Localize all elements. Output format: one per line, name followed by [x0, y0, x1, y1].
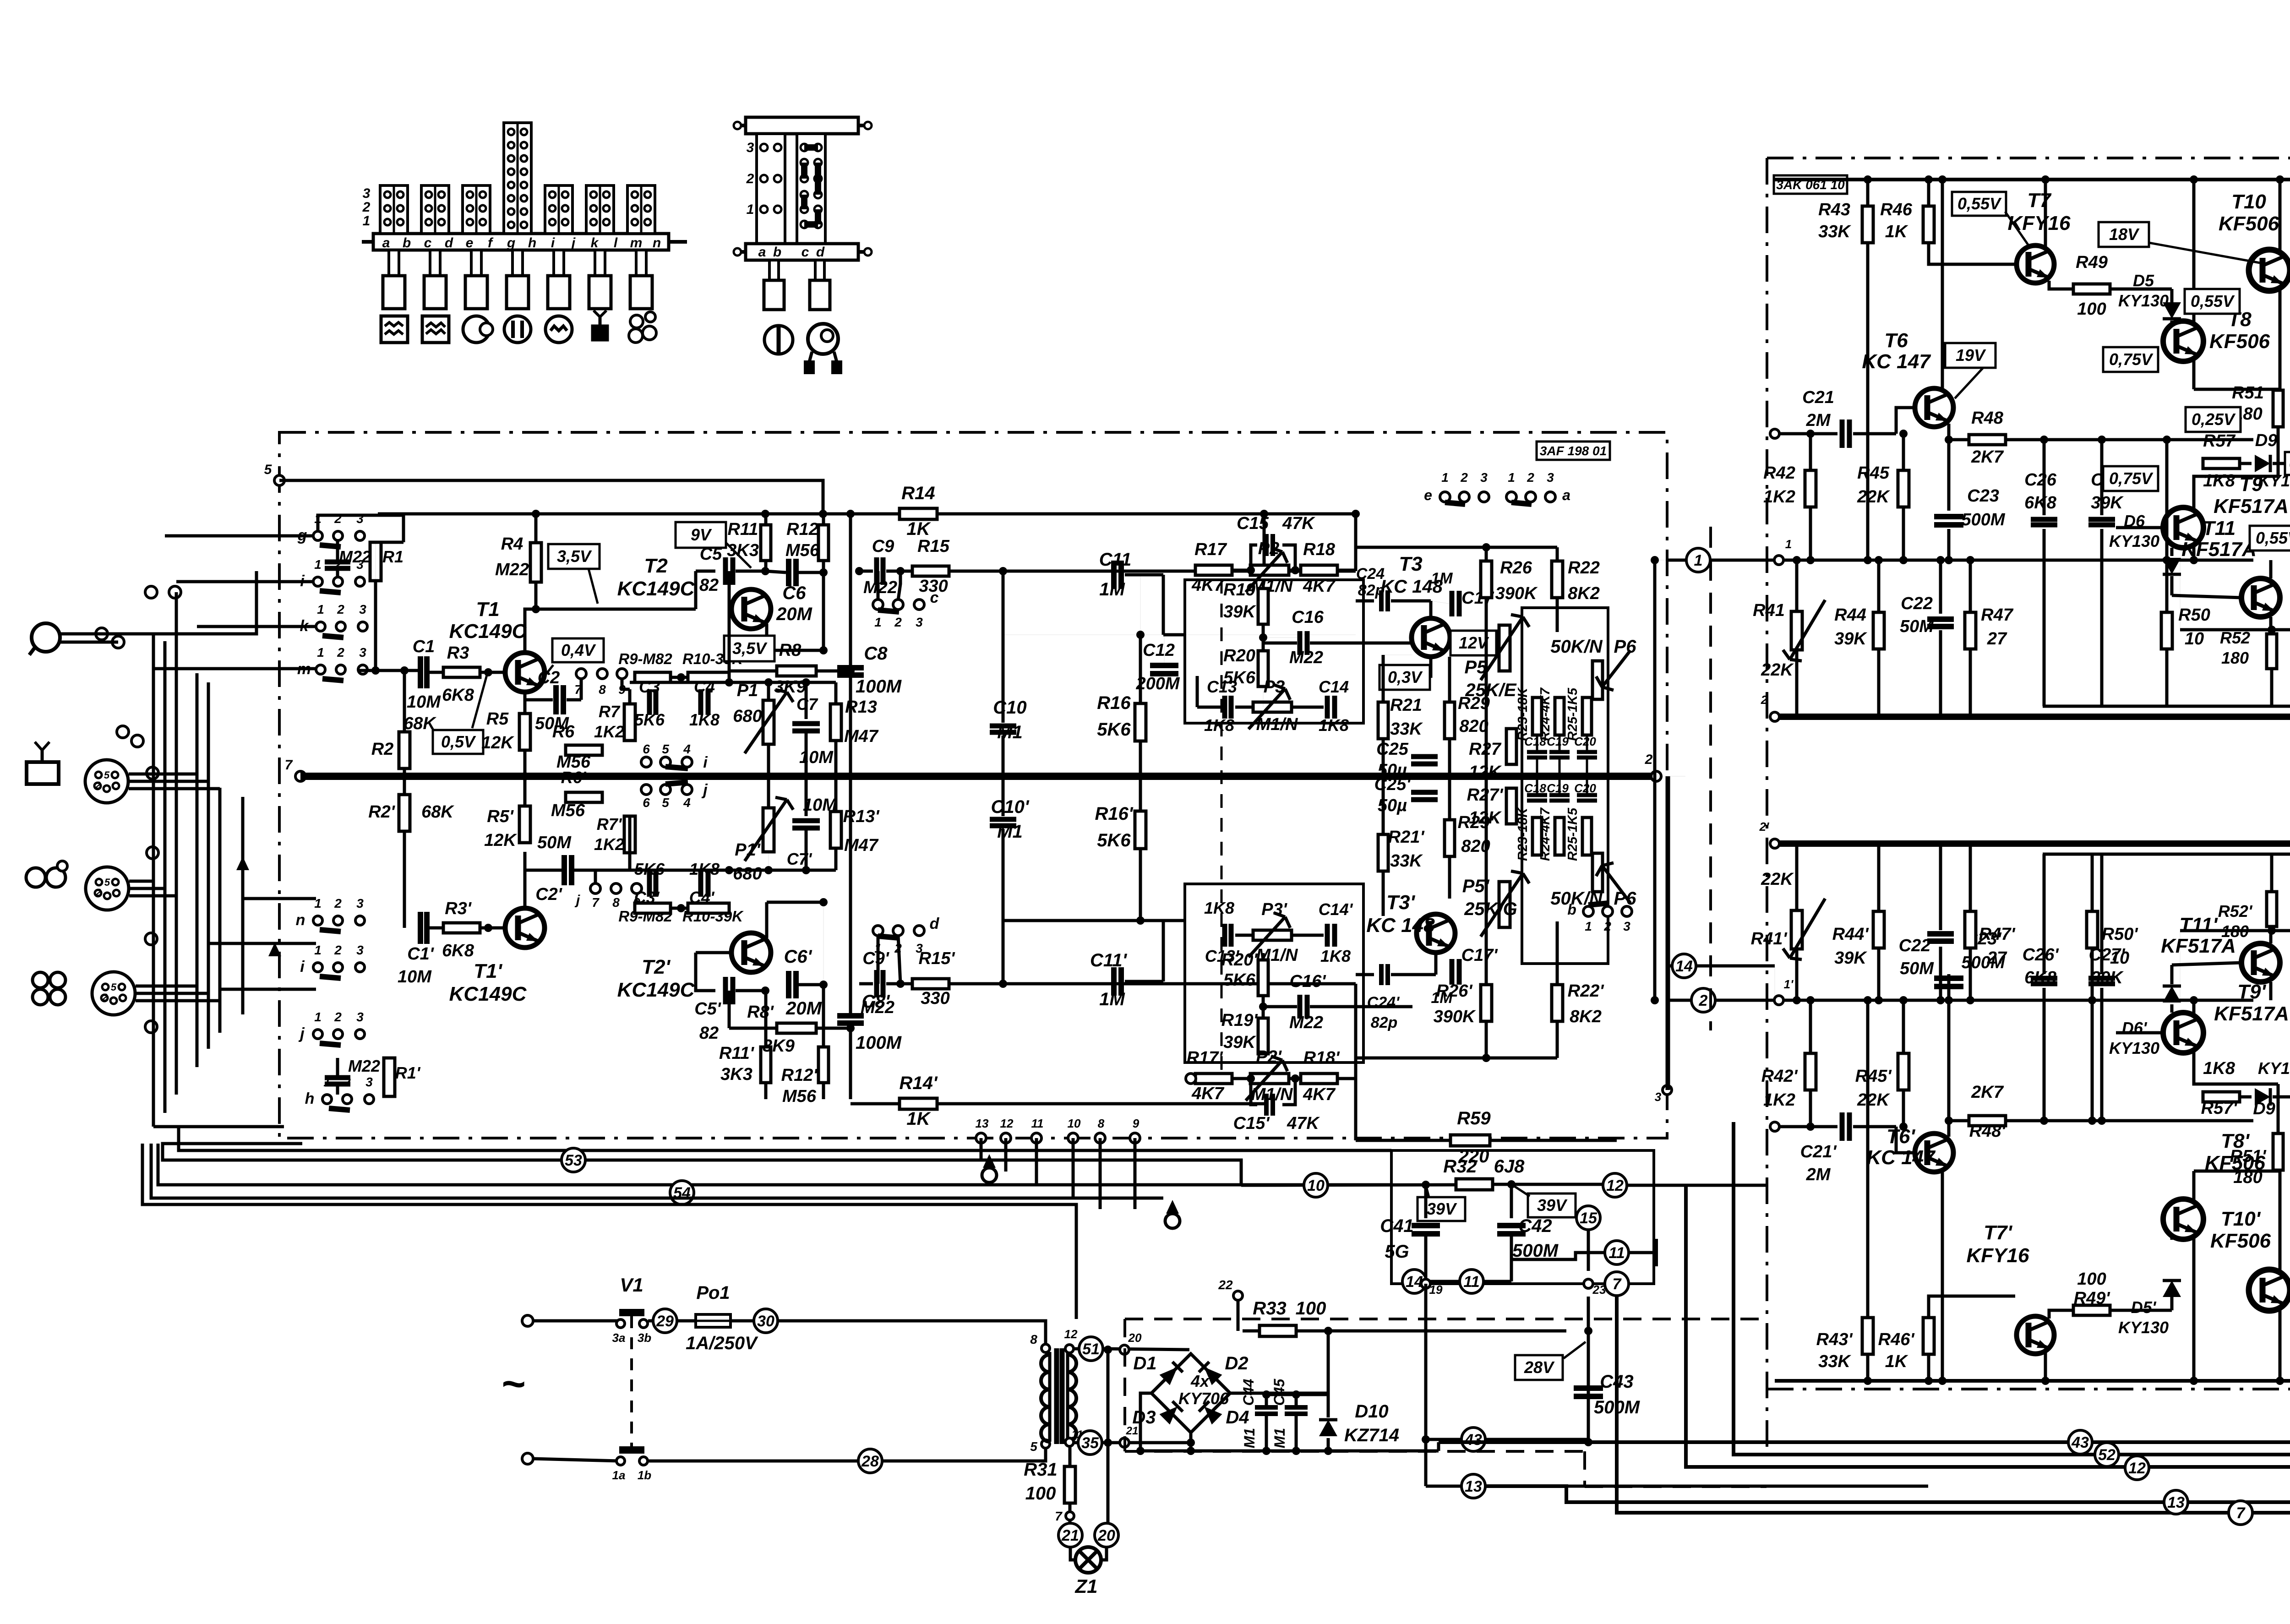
svg-text:1K8: 1K8 [1319, 716, 1349, 735]
svg-text:R12': R12' [781, 1066, 818, 1085]
resistor R11' [761, 1047, 771, 1083]
svg-text:M22: M22 [348, 1057, 380, 1075]
svg-text:C4': C4' [689, 888, 715, 907]
svg-text:3K9: 3K9 [763, 1036, 795, 1056]
svg-text:43: 43 [2071, 1434, 2089, 1451]
svg-text:R7': R7' [597, 815, 622, 834]
capacitor C23 [1947, 440, 1951, 511]
wire 20 vertical [1107, 1350, 1110, 1523]
node 13 power [1424, 1439, 1428, 1486]
svg-text:D9': D9' [2253, 1099, 2280, 1118]
svg-text:C19: C19 [1547, 735, 1569, 748]
svg-text:2: 2 [362, 200, 371, 215]
svg-text:KF517A: KF517A [2214, 495, 2289, 518]
capacitor C21 [1775, 432, 1837, 436]
wire bus 52 bottom [1734, 1122, 2290, 1455]
node 51 power [1079, 1337, 1103, 1361]
svg-text:3AF 198 01: 3AF 198 01 [1540, 444, 1607, 458]
svg-text:7: 7 [1613, 1275, 1622, 1293]
svg-text:V1: V1 [620, 1274, 643, 1296]
resistor R52 [2180, 628, 2290, 632]
svg-text:C23: C23 [1967, 486, 1999, 506]
svg-text:n: n [296, 911, 305, 929]
transistor T9 [2163, 507, 2203, 548]
svg-text:2: 2 [334, 943, 342, 957]
svg-text:C22: C22 [1901, 594, 1933, 613]
svg-text:R2: R2 [371, 740, 394, 759]
filter box [1391, 1150, 1654, 1284]
switch contact k [316, 622, 325, 631]
svg-text:5K6: 5K6 [634, 710, 665, 729]
svg-text:47K: 47K [1282, 514, 1315, 533]
lower mid wire [1162, 921, 1165, 981]
resistor R42' [1810, 1090, 1811, 1127]
svg-text:1K8: 1K8 [1320, 947, 1351, 965]
symbol rec/play head (wave box) c [422, 316, 449, 343]
svg-text:2: 2 [95, 887, 102, 898]
svg-text:1M: 1M [1099, 579, 1125, 599]
svg-text:T7': T7' [1984, 1221, 2012, 1244]
wire T2 emitter [765, 624, 769, 650]
svg-text:180: 180 [2221, 922, 2249, 941]
svg-text:4K7: 4K7 [1303, 1085, 1336, 1104]
svg-text:R20: R20 [1223, 646, 1255, 665]
voltage 0,5V [433, 730, 483, 754]
svg-text:R44: R44 [1834, 605, 1866, 625]
svg-text:22K: 22K [1857, 487, 1890, 507]
svg-text:51: 51 [1082, 1341, 1100, 1358]
svg-text:11: 11 [1031, 1117, 1044, 1130]
svg-text:KY130: KY130 [2118, 1318, 2169, 1337]
wire R3 to T1 base [480, 671, 505, 674]
resistor R51 [2273, 390, 2283, 427]
svg-text:5: 5 [104, 769, 110, 781]
contact 7 8 9 [576, 669, 586, 679]
contact a [1506, 492, 1516, 502]
svg-text:R5': R5' [487, 807, 514, 826]
resistor R22' [1552, 985, 1563, 1021]
svg-text:d: d [816, 245, 825, 260]
transistor T3 [1412, 618, 1450, 657]
svg-text:R6': R6' [561, 768, 587, 787]
wire bus 13 bottom [1486, 1486, 2290, 1502]
connector K2 right column with jumpers [797, 134, 825, 244]
svg-text:D2: D2 [1225, 1353, 1248, 1373]
svg-text:R49': R49' [2074, 1289, 2111, 1308]
svg-text:5: 5 [111, 981, 117, 993]
svg-text:P3': P3' [1261, 900, 1287, 919]
contact e [1440, 492, 1450, 502]
svg-text:6: 6 [643, 796, 650, 810]
svg-text:P2': P2' [1256, 1047, 1282, 1067]
svg-text:R19': R19' [1221, 1011, 1259, 1030]
svg-text:12: 12 [1064, 1327, 1078, 1341]
capacitor C26 [2043, 440, 2046, 515]
resistor R44' [1873, 911, 1884, 948]
transistor T1' [505, 908, 545, 948]
svg-text:R25-1K5: R25-1K5 [1565, 807, 1580, 861]
resistor R45 [1898, 470, 1909, 507]
resistor R18 [1301, 565, 1337, 575]
wire loop 53 [163, 1144, 1241, 1185]
svg-text:39K: 39K [2091, 968, 2124, 987]
svg-text:R45': R45' [1855, 1067, 1892, 1086]
svg-text:R17': R17' [1187, 1048, 1224, 1068]
svg-text:D6: D6 [2124, 512, 2145, 530]
svg-text:D9: D9 [2255, 431, 2278, 450]
capacitor C9 [874, 557, 879, 585]
svg-text:3: 3 [359, 602, 366, 616]
resistor R5 [519, 714, 530, 750]
svg-text:Z1: Z1 [1074, 1575, 1097, 1597]
svg-text:R11': R11' [719, 1044, 755, 1063]
svg-text:C42: C42 [1518, 1216, 1552, 1236]
svg-text:10M: 10M [407, 692, 441, 712]
resistor R3' [427, 926, 443, 930]
connector bank K2 top bar [746, 117, 858, 134]
svg-text:C21': C21' [1800, 1142, 1837, 1161]
svg-text:i: i [703, 754, 708, 771]
svg-text:3,5V: 3,5V [732, 639, 768, 658]
wire phono DIN to loom [136, 985, 197, 988]
svg-text:1: 1 [1694, 552, 1703, 569]
transistor T11' [2241, 943, 2280, 982]
svg-text:12: 12 [1000, 1117, 1014, 1130]
svg-text:C1': C1' [407, 944, 435, 964]
svg-text:d: d [930, 915, 940, 932]
svg-text:T11: T11 [2203, 517, 2236, 540]
resistor R13 [830, 704, 841, 741]
svg-text:5: 5 [1030, 1439, 1037, 1454]
resistor R48' [1949, 1119, 1968, 1123]
wire base R8 row [728, 571, 731, 671]
svg-text:C20: C20 [1574, 781, 1596, 795]
capacitor C5 [694, 571, 698, 609]
resistor R22 [1552, 561, 1563, 598]
svg-text:39K: 39K [2091, 493, 2124, 512]
svg-text:4K7: 4K7 [1191, 576, 1225, 595]
svg-text:2: 2 [1699, 992, 1708, 1009]
svg-text:39K: 39K [1834, 629, 1867, 649]
ground node 11 [1511, 1253, 1604, 1259]
svg-text:C16': C16' [1290, 972, 1327, 991]
svg-text:1K8: 1K8 [689, 710, 720, 729]
wire mains lower to transformer [647, 1448, 1046, 1461]
svg-text:20M: 20M [776, 604, 812, 624]
svg-text:R47: R47 [1981, 605, 2014, 625]
voltage 18V [2099, 222, 2149, 247]
svg-text:39K: 39K [1223, 602, 1256, 621]
svg-text:4: 4 [683, 796, 691, 810]
svg-text:6: 6 [643, 742, 650, 756]
svg-text:C25: C25 [1376, 740, 1409, 759]
capacitor C45 [1285, 1405, 1308, 1410]
resistor R45' [1898, 1053, 1909, 1090]
svg-text:3: 3 [747, 140, 754, 155]
terminal 7 [295, 771, 305, 781]
svg-text:10: 10 [1068, 1117, 1081, 1130]
resistor R27 [1506, 729, 1516, 764]
svg-text:4: 4 [683, 742, 691, 756]
svg-text:27: 27 [1987, 948, 2007, 968]
transistor T2 [731, 589, 771, 629]
svg-text:2: 2 [1761, 693, 1768, 707]
svg-text:6K8: 6K8 [2024, 493, 2057, 512]
resistor R32 [1456, 1179, 1493, 1190]
svg-text:R6: R6 [552, 722, 575, 741]
svg-text:43: 43 [1464, 1431, 1482, 1449]
svg-text:R23-18K: R23-18K [1516, 687, 1530, 741]
resistor R21' [1378, 834, 1388, 871]
resistor R46 [1927, 180, 1930, 207]
svg-text:5: 5 [662, 742, 669, 756]
svg-text:1K: 1K [906, 1109, 931, 1129]
connector column mn [627, 185, 655, 234]
resistor R49 [2073, 284, 2110, 294]
transformer Tr1 [1041, 1344, 1050, 1352]
svg-text:C6: C6 [782, 583, 806, 603]
svg-text:0,55V: 0,55V [1957, 194, 2002, 213]
potentiometer P2' [1250, 1074, 1289, 1084]
svg-text:KF506: KF506 [2210, 1230, 2271, 1252]
svg-text:D1: D1 [1133, 1353, 1156, 1373]
capacitor C10 [1002, 571, 1005, 723]
svg-text:C14': C14' [1319, 900, 1353, 919]
head plug contacts [117, 726, 129, 738]
capacitor C4 [698, 689, 703, 715]
wire radio DIN to loom [129, 773, 197, 776]
svg-text:12K: 12K [481, 733, 514, 752]
tone control box [1522, 608, 1608, 964]
resistor R42 [1810, 434, 1811, 470]
svg-text:680: 680 [733, 864, 762, 883]
svg-text:3: 3 [365, 1075, 373, 1089]
svg-text:i: i [300, 572, 305, 590]
contact b [1583, 906, 1593, 916]
capacitor C23' [1947, 992, 1951, 1121]
resistor R24-4K7 [1555, 698, 1564, 735]
svg-text:R3': R3' [445, 899, 472, 918]
svg-text:3: 3 [1480, 470, 1488, 485]
capacitor C25 [1411, 754, 1438, 759]
svg-text:7: 7 [1055, 1509, 1063, 1523]
svg-text:82: 82 [699, 576, 719, 595]
svg-text:R3: R3 [447, 643, 469, 663]
svg-text:KC 147: KC 147 [1862, 350, 1931, 373]
svg-text:n: n [653, 235, 661, 251]
connector column cd [421, 185, 449, 234]
resistor R19 [1258, 589, 1268, 624]
DIN socket tape [86, 867, 129, 910]
bridge rectifier 4x KY706 [1151, 1354, 1230, 1433]
voltage 19V [1945, 343, 1996, 368]
svg-text:1K: 1K [906, 519, 931, 539]
transistor T7 [2017, 245, 2054, 283]
svg-text:2: 2 [1645, 752, 1653, 767]
wire input rail in [1667, 559, 2253, 562]
capacitor C13 [1222, 696, 1227, 719]
svg-text:9: 9 [1133, 1117, 1140, 1130]
svg-text:T1: T1 [476, 598, 499, 621]
potentiometer P5 [1499, 625, 1510, 671]
svg-text:8: 8 [1098, 1117, 1105, 1130]
svg-text:R51: R51 [2232, 383, 2264, 403]
svg-text:19: 19 [1429, 1283, 1443, 1297]
svg-text:T10: T10 [2231, 191, 2266, 213]
svg-text:10: 10 [2185, 629, 2204, 649]
svg-text:M22: M22 [495, 560, 529, 579]
svg-text:500M: 500M [1961, 510, 2005, 529]
svg-text:R41': R41' [1751, 929, 1788, 948]
svg-text:C21: C21 [1802, 388, 1834, 407]
svg-text:l: l [614, 235, 618, 251]
resistor R43 [1866, 180, 1870, 207]
plug ab [389, 250, 399, 276]
svg-text:m: m [297, 660, 311, 678]
svg-text:1M: 1M [1431, 570, 1453, 587]
svg-text:R25-1K5: R25-1K5 [1565, 687, 1580, 741]
svg-text:7: 7 [285, 758, 293, 773]
wire bus 43 bottom [1439, 1440, 2290, 1444]
wire tape DIN to loom [129, 880, 153, 883]
svg-text:68K: 68K [421, 802, 454, 822]
svg-text:C17': C17' [1461, 946, 1499, 965]
svg-text:R18': R18' [1303, 1048, 1341, 1068]
wire bus 12 bottom [1686, 1185, 2290, 1467]
transistor T6 [1915, 388, 1953, 427]
wires dropping from bottom border [980, 1138, 983, 1160]
wire T1 emitter [523, 692, 527, 742]
svg-text:1: 1 [363, 213, 371, 229]
wire supply rail top [1775, 178, 2290, 181]
svg-text:2M: 2M [1806, 1165, 1831, 1184]
svg-text:1: 1 [317, 645, 324, 659]
svg-text:T3: T3 [1399, 553, 1422, 575]
svg-text:50K/N: 50K/N [1550, 637, 1603, 657]
svg-text:T2: T2 [644, 555, 668, 577]
svg-text:D5': D5' [2131, 1298, 2157, 1317]
svg-text:KC149C: KC149C [617, 979, 695, 1001]
svg-text:T2': T2' [642, 956, 671, 978]
svg-text:C11: C11 [1099, 550, 1131, 570]
svg-text:R45: R45 [1857, 463, 1890, 483]
svg-text:R49: R49 [2076, 253, 2108, 272]
svg-text:500M: 500M [1512, 1241, 1559, 1261]
svg-text:R12: R12 [786, 520, 818, 539]
svg-text:R47': R47' [1979, 925, 2016, 944]
svg-text:2: 2 [746, 171, 754, 186]
resistor R46' [1927, 1354, 1930, 1381]
svg-text:D5: D5 [2133, 271, 2154, 290]
svg-text:KC149C: KC149C [449, 620, 527, 643]
svg-text:82: 82 [699, 1024, 719, 1043]
svg-text:100: 100 [1025, 1483, 1056, 1504]
terminal 5 [274, 475, 284, 485]
svg-text:R21': R21' [1388, 828, 1425, 847]
node 29 [648, 1319, 652, 1323]
svg-text:KC 148: KC 148 [1366, 914, 1435, 937]
svg-text:2M: 2M [1806, 411, 1831, 430]
svg-text:2: 2 [95, 779, 101, 791]
svg-text:1: 1 [1585, 919, 1592, 933]
voltage 0,25V [2186, 407, 2241, 432]
svg-text:M22: M22 [863, 578, 897, 597]
svg-text:5G: 5G [1385, 1242, 1409, 1262]
svg-text:5: 5 [264, 462, 273, 477]
svg-text:3: 3 [1655, 1090, 1662, 1104]
potentiometer R41' [1791, 910, 1802, 949]
transistor T3' [1417, 914, 1455, 953]
svg-text:1: 1 [314, 1010, 322, 1024]
capacitor C7 [805, 682, 808, 719]
wire mic to switch [60, 571, 256, 634]
svg-text:1: 1 [314, 557, 322, 572]
capacitor C2 [523, 692, 527, 714]
svg-text:5K6: 5K6 [1223, 970, 1256, 990]
svg-text:R7: R7 [599, 702, 621, 721]
resistor R52' [2180, 929, 2290, 932]
svg-text:M1: M1 [997, 822, 1023, 842]
symbol motor i [545, 316, 572, 343]
capacitor C9' [874, 970, 879, 997]
svg-text:T10': T10' [2221, 1208, 2261, 1230]
svg-text:0,55V: 0,55V [2191, 292, 2235, 311]
svg-text:M22: M22 [1289, 1013, 1323, 1032]
capacitor C2' [525, 869, 563, 872]
resistor R12 [818, 525, 829, 561]
svg-text:b: b [1567, 901, 1576, 918]
svg-text:b: b [773, 245, 781, 260]
potentiometer P1 [763, 700, 774, 744]
capacitor C14' [1325, 924, 1330, 947]
capacitor C15 [1251, 545, 1257, 570]
svg-text:R43': R43' [1816, 1330, 1854, 1349]
svg-text:g: g [507, 235, 515, 251]
svg-text:R24-4K7: R24-4K7 [1538, 807, 1553, 861]
svg-text:R8: R8 [779, 641, 801, 660]
svg-text:R22': R22' [1568, 981, 1605, 1001]
svg-text:C25': C25' [1374, 775, 1412, 794]
svg-text:0,75V: 0,75V [2109, 350, 2154, 369]
resistor R14' [900, 1098, 937, 1109]
svg-text:13: 13 [976, 1117, 989, 1130]
microphone icon [32, 623, 60, 652]
wire 2 terminal link [1663, 1085, 1672, 1095]
svg-text:1: 1 [314, 943, 322, 957]
capacitor C43 [1588, 1342, 1589, 1379]
svg-text:5: 5 [104, 877, 110, 888]
svg-text:1K8: 1K8 [1204, 899, 1234, 917]
resistor R2' [399, 795, 410, 831]
wire loom into amplifier [153, 667, 316, 670]
lamp Z1 [1070, 1547, 1076, 1560]
capacitor C4' [698, 871, 703, 897]
svg-text:2: 2 [334, 1010, 342, 1024]
board label 3AF 198 01 [1537, 441, 1610, 460]
transistor T1 [505, 653, 545, 692]
svg-text:C18: C18 [1524, 781, 1546, 795]
svg-text:R15: R15 [917, 537, 950, 556]
voltage 0,75V T8 [2103, 347, 2158, 372]
svg-text:M1: M1 [1271, 1428, 1288, 1448]
resistor R23-18K [1532, 698, 1542, 735]
svg-text:1: 1 [317, 602, 324, 616]
svg-text:3,5V: 3,5V [557, 547, 592, 566]
mic plug contacts [96, 628, 108, 640]
capacitor C13' [1222, 924, 1227, 947]
svg-text:R21: R21 [1390, 696, 1422, 715]
diode D5 [2170, 289, 2174, 302]
